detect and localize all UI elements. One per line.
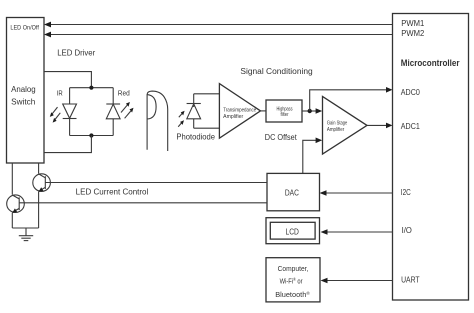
wire I/O to LCD bbox=[321, 229, 393, 235]
svg-text:UART: UART bbox=[401, 275, 420, 284]
wire Q1 collector to analog switch bbox=[38, 163, 40, 174]
svg-text:PWM1: PWM1 bbox=[401, 19, 425, 28]
LCD display bbox=[266, 218, 320, 244]
svg-text:Red: Red bbox=[118, 91, 130, 98]
wire LED bottom node to analog switch bbox=[44, 136, 91, 153]
wire analog switch to LED top node bbox=[44, 72, 91, 88]
svg-text:Switch: Switch bbox=[11, 97, 35, 106]
svg-text:LED Driver: LED Driver bbox=[57, 48, 95, 57]
wire junction to ADC0 bbox=[310, 87, 393, 111]
wire Q2 emitter down bbox=[11, 213, 13, 228]
wire PWM2 to analog switch bbox=[44, 32, 393, 38]
IR emission arrows bbox=[50, 107, 61, 123]
svg-text:Signal Conditioning: Signal Conditioning bbox=[240, 67, 312, 76]
svg-text:Amplifier: Amplifier bbox=[327, 127, 345, 133]
svg-text:Photodiode: Photodiode bbox=[176, 132, 215, 141]
node bottom rail bbox=[70, 133, 114, 137]
op-amp U2 transimpedance amplifier bbox=[219, 84, 260, 139]
svg-text:filter: filter bbox=[281, 112, 289, 118]
wire highpass output to gain amp with junction bbox=[302, 108, 322, 114]
wire TIA output to highpass filter bbox=[261, 110, 267, 112]
transistor Q1 bbox=[33, 174, 51, 192]
op-amp U3 gain stage amplifier bbox=[323, 97, 368, 155]
wire photodiode loop top bbox=[194, 93, 220, 95]
transistor Q2 bbox=[7, 195, 25, 213]
svg-text:DC Offset: DC Offset bbox=[265, 133, 298, 142]
photodiode light arrows bbox=[178, 111, 184, 127]
microcontroller U4 bbox=[393, 14, 469, 301]
wire DC offset from DAC to gain amp input bbox=[303, 138, 322, 174]
svg-text:Microcontroller: Microcontroller bbox=[401, 58, 460, 68]
svg-text:Amplifier: Amplifier bbox=[223, 114, 243, 120]
LED D1 IR bbox=[63, 88, 77, 136]
svg-text:Computer,: Computer, bbox=[278, 264, 309, 273]
svg-text:I2C: I2C bbox=[401, 188, 411, 197]
svg-text:LED On/Off: LED On/Off bbox=[10, 26, 39, 32]
svg-text:I/O: I/O bbox=[402, 226, 412, 235]
wire Q1 emitter down bbox=[38, 192, 40, 228]
DAC U5 bbox=[267, 173, 320, 210]
wire LED current control top (DAC to Q1 base) bbox=[45, 182, 267, 184]
svg-text:Bluetooth®: Bluetooth® bbox=[275, 290, 310, 299]
node top rail bbox=[70, 86, 114, 90]
highpass filter F1 bbox=[266, 100, 302, 122]
svg-text:Analog: Analog bbox=[11, 85, 36, 94]
svg-text:Gain Stage: Gain Stage bbox=[327, 121, 348, 127]
wire photodiode loop bottom bbox=[194, 127, 220, 129]
wire UART to computer bbox=[321, 278, 393, 284]
finger bbox=[147, 91, 168, 151]
analog switch U1 bbox=[7, 18, 45, 164]
wire gain amp output to ADC1 bbox=[367, 123, 393, 129]
ground bbox=[19, 228, 33, 241]
wire I2C to DAC bbox=[320, 190, 393, 196]
svg-text:Wi-Fi® or: Wi-Fi® or bbox=[280, 276, 303, 285]
wire LED current control bottom (DAC to Q2 base) bbox=[19, 202, 267, 204]
svg-text:DAC: DAC bbox=[285, 188, 299, 197]
photodiode D3 bbox=[187, 94, 201, 128]
svg-text:ADC0: ADC0 bbox=[401, 88, 420, 97]
svg-text:IR: IR bbox=[57, 91, 63, 98]
svg-text:LCD: LCD bbox=[286, 228, 300, 237]
svg-text:Transimpedance: Transimpedance bbox=[223, 107, 256, 113]
wire emitter bus bbox=[12, 227, 38, 229]
wire Q2 collector to analog switch bbox=[11, 163, 13, 195]
svg-text:ADC1: ADC1 bbox=[401, 122, 420, 131]
Red emission arrows bbox=[121, 102, 134, 118]
svg-text:LED Current Control: LED Current Control bbox=[76, 188, 149, 197]
svg-text:PWM2: PWM2 bbox=[401, 29, 425, 38]
computer block bbox=[266, 258, 320, 302]
LED D2 Red bbox=[106, 88, 120, 136]
wire PWM1 to analog switch bbox=[44, 22, 393, 28]
